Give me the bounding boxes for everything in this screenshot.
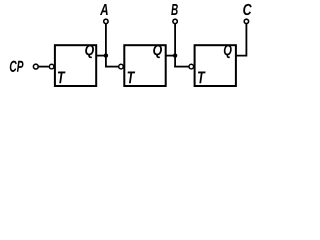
terminal CP (33, 64, 38, 69)
node A junction (104, 53, 108, 57)
wire to T3 bubble (174, 66, 189, 68)
wire Q1 out (96, 55, 106, 57)
label A (100, 4, 108, 15)
pin label T (FF2) (128, 72, 136, 84)
wire riser A down to T2 level (105, 24, 107, 68)
pin label Q (FF1) (85, 45, 94, 58)
wire riser B down to T3 level (174, 24, 176, 68)
inverter bubble T2 (119, 64, 124, 69)
wire CP to T1 bubble (39, 66, 49, 68)
pin label T (FF1) (58, 72, 66, 84)
inverter bubble T1 (49, 64, 54, 69)
wire Q2 out (166, 55, 175, 57)
inverter bubble T3 (189, 64, 194, 69)
terminal A (104, 19, 108, 23)
flip-flop FF3 box (195, 45, 236, 86)
pin label Q (FF2) (153, 45, 162, 58)
node B junction (173, 53, 177, 57)
flip-flop FF1 box (55, 45, 96, 86)
wire Q3 out up to C (236, 24, 247, 56)
pin label T (FF3) (198, 72, 206, 84)
flip-flop FF2 box (124, 45, 165, 86)
label C (243, 4, 252, 15)
wire to T2 bubble (105, 66, 119, 68)
pin label Q (FF3) (224, 45, 232, 58)
label CP (10, 61, 24, 72)
terminal B (173, 19, 177, 23)
label B (171, 4, 178, 15)
terminal C (244, 19, 248, 23)
